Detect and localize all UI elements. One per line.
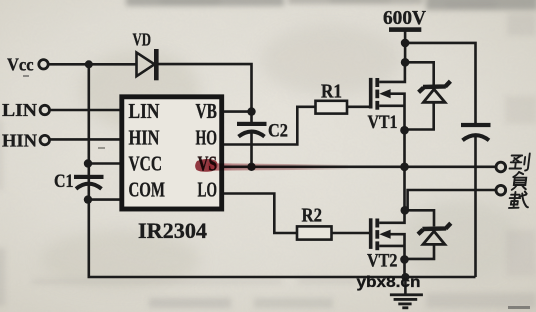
wire COM pin tap — [89, 198, 121, 201]
svg-text:600V: 600V — [383, 8, 426, 29]
wire VT2 freewheel diode loop bottom — [405, 244, 435, 259]
node VT1 source junction — [400, 126, 409, 135]
node COM tap junction — [84, 195, 92, 203]
svg-text:LIN: LIN — [129, 99, 160, 123]
transistor Q2 VT2 MOSFET — [367, 218, 398, 271]
svg-text:VT1: VT1 — [368, 113, 398, 133]
node A junction on Vcc rail — [85, 60, 93, 68]
diode VD — [133, 29, 159, 80]
diode D1 freewheel for VT1 — [419, 81, 451, 102]
svg-text:C1: C1 — [54, 171, 74, 192]
wire VT2 freewheel diode loop top — [405, 210, 435, 226]
svg-text:R2: R2 — [302, 205, 323, 227]
node VT2 source junction — [400, 255, 409, 264]
wire left bus vertical and ground rail — [89, 64, 476, 277]
svg-text:HIN: HIN — [2, 131, 37, 151]
svg-text:R1: R1 — [321, 81, 342, 103]
node D junction VT1 drain and diode — [401, 58, 410, 67]
wire node C to bus capacitor branch — [405, 43, 475, 123]
wire VCC pin tap — [89, 162, 121, 165]
wire bus capacitor to ground rail — [474, 135, 477, 278]
wire load tap lower L — [405, 190, 496, 210]
node VS midpoint junction — [400, 163, 409, 172]
terminal Vcc — [39, 60, 48, 69]
capacitor C1 — [54, 171, 104, 192]
IC U1 IR2304 gate driver — [122, 97, 222, 243]
wire VT1 source bend — [389, 94, 405, 131]
svg-text:HO: HO — [196, 125, 218, 149]
wire node A to diode VD anode — [89, 63, 137, 66]
svg-text:ybx8.cn: ybx8.cn — [357, 274, 421, 291]
svg-text:LIN: LIN — [2, 100, 37, 120]
wire half-bridge midpoint vertical — [403, 130, 406, 210]
terminal output upper — [496, 162, 506, 172]
terminal LIN — [40, 105, 49, 114]
svg-text:COM: COM — [129, 177, 166, 201]
annotation red marker streak on VS — [195, 159, 348, 172]
wire VT2 source to ground rail — [403, 259, 406, 277]
wire VB pin to node B — [222, 110, 252, 113]
wire VT2 source lead — [379, 245, 404, 248]
node B junction VB and C2 — [247, 107, 255, 115]
ground — [390, 293, 423, 309]
wire 600V bar down to node C — [404, 32, 407, 63]
wire LIN terminal to LIN pin — [50, 109, 121, 112]
wire VT1 source lead — [379, 105, 404, 108]
svg-text:VCC: VCC — [129, 151, 163, 175]
node C2 to VS junction — [247, 163, 255, 171]
capacitor C2 — [237, 121, 288, 142]
node VT2 drain junction — [401, 206, 410, 215]
wire VT2 drain — [379, 210, 404, 223]
wire VT1 freewheel diode loop top — [405, 62, 434, 85]
wire R1 to VT1 gate — [347, 106, 370, 109]
terminal HIN — [40, 135, 49, 144]
svg-text:VB: VB — [196, 99, 218, 123]
node C junction to bus cap branch — [401, 39, 410, 48]
capacitor C3 bus filter — [461, 123, 491, 140]
wire node D to VT1 drain — [379, 62, 405, 82]
wire Vcc terminal to node A — [48, 63, 89, 66]
wire HIN terminal to HIN pin — [50, 138, 121, 141]
diode D2 freewheel for VT2 — [418, 223, 451, 244]
wire VD cathode to corner above VB — [158, 64, 252, 112]
svg-text:LO: LO — [198, 177, 218, 201]
label to-load dao — [509, 154, 529, 171]
wire R2 to VT2 gate — [332, 232, 370, 235]
wire C2 bottom plate to VS line — [250, 132, 253, 167]
terminal output lower — [496, 185, 506, 195]
node ground junction — [401, 273, 409, 294]
label to-load fu — [512, 172, 528, 190]
svg-text:Vcc: Vcc — [7, 54, 34, 74]
power 600V supply bar — [383, 8, 426, 32]
wire VS pin to upper output terminal — [222, 166, 496, 169]
resistor R1 — [316, 81, 348, 114]
wire VT1 freewheel diode loop bottom — [405, 102, 434, 129]
svg-text:VD: VD — [133, 29, 152, 49]
node VCC tap junction — [84, 159, 92, 167]
transistor Q1 VT1 MOSFET — [368, 78, 398, 133]
svg-text:VT2: VT2 — [367, 251, 398, 271]
svg-text:C2: C2 — [268, 121, 288, 142]
svg-text:HIN: HIN — [129, 125, 160, 149]
resistor R2 — [297, 205, 332, 240]
wire node B down to C2 top plate — [250, 112, 253, 123]
wire HO pin to R1 — [222, 107, 316, 145]
label to-load zai — [508, 192, 529, 208]
wire VT2 source bend — [389, 234, 405, 259]
wire LO pin to R2 — [222, 194, 297, 234]
svg-text:IR2304: IR2304 — [138, 218, 207, 243]
